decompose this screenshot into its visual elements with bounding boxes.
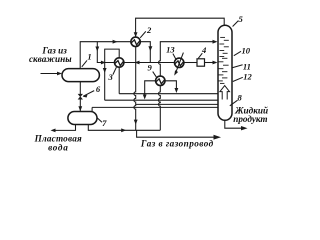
arrow on collector (121, 128, 126, 132)
wire: HX3 bottom to line A (118, 67, 120, 94)
wire: vessel 1 bottom drop to valve 6 (79, 82, 81, 94)
wire: valve 6 to vessel 7 with arrow (78, 99, 82, 111)
line C (136, 103, 218, 105)
heater block arrow 8 inside column bottom (220, 86, 230, 100)
text: Газ из скважины (29, 46, 72, 64)
arrow down on loop leg (103, 68, 107, 73)
line D (92, 106, 218, 108)
svg-text:3: 3 (107, 72, 113, 82)
svg-text:13: 13 (166, 45, 175, 55)
wire: column overhead line to HX2 top (136, 18, 225, 36)
label 12 with leader (233, 72, 253, 82)
label 6 with leader arrow (83, 84, 101, 97)
svg-text:10: 10 (242, 46, 251, 56)
svg-text:12: 12 (243, 72, 252, 82)
svg-text:4: 4 (201, 45, 207, 55)
wire: line F2 from HX3 right through valve 13 to box 4 (124, 62, 175, 64)
wire: HX9 top riser to column feed 1 with arrow (159, 40, 218, 76)
svg-text:6: 6 (96, 84, 101, 94)
svg-text:Газ в газопровод: Газ в газопровод (140, 138, 214, 148)
label 4 with leader (198, 45, 207, 58)
label 1 with leader (82, 52, 92, 67)
svg-text:5: 5 (238, 14, 243, 24)
label 3 with leader (107, 67, 116, 82)
svg-text:11: 11 (243, 62, 251, 72)
wire: HX9 left outlet down to line B with arrow (143, 81, 156, 100)
wire: HX9 bottom drop with hops to line D then down to collector (159, 86, 161, 131)
text: Пластовая вода (34, 133, 82, 152)
label 9 with leader (147, 63, 156, 78)
vessel 1 (horizontal separator) (62, 69, 99, 82)
throttle 13 (circle with zigzag and regulation arrow) (174, 53, 184, 76)
svg-text:7: 7 (102, 118, 107, 128)
heat exchanger 9 (circle with zigzag) (156, 76, 165, 85)
heat exchanger 2 (circle with zigzag) (131, 37, 140, 46)
column 5 (fractionator shell) (218, 25, 232, 120)
label 2 with leader (140, 25, 152, 38)
wire: HX2 right outlet down to line F2 (140, 42, 150, 63)
arrow down on HX2 right drop (148, 46, 152, 51)
label 13 with leader (166, 45, 176, 60)
wire: branch down from HX2 line into HX3 feed (97, 42, 114, 63)
box 4 (filter/meter) (197, 59, 205, 66)
wire: HX9 right outlet down to line A with arrow (165, 81, 178, 93)
wire: vessel 1 top riser to HX2 line (80, 42, 131, 69)
column internal dashes (219, 37, 229, 83)
label 10 with leader (234, 46, 251, 56)
svg-text:8: 8 (237, 92, 242, 102)
svg-text:продукт: продукт (233, 114, 267, 124)
arrow down on branch (95, 47, 99, 52)
wire: HX3 top loop down to line B (105, 49, 120, 100)
arrow into HX3 left (101, 61, 106, 65)
svg-text:9: 9 (147, 63, 152, 73)
text: Жидкий продукт (233, 105, 268, 123)
arrow pointing left into HX3 right side (135, 61, 140, 65)
wire: vessel 7 gas outlet up to line D (91, 107, 93, 111)
wire: column bottom liquid outlet with arrow (225, 120, 248, 130)
svg-text:2: 2 (146, 25, 152, 35)
wire: box 4 to column feed 2 with arrow (205, 61, 218, 65)
arrow into HX2 top (134, 32, 138, 37)
wire: inlet arrow into separator 1 (41, 72, 63, 76)
wire: between valve 13 and box 4 (184, 62, 197, 64)
wire: vessel 7 bottom-right outlet to collector line (88, 125, 160, 131)
wire: vessel 7 water outlet to the left (51, 125, 76, 133)
vessel 7 (water separator) (68, 112, 97, 125)
wire: HX2 bottom drop with hops, flow arrow (134, 47, 136, 131)
line A (hot stream to column) (119, 93, 218, 95)
label 7 with leader (97, 118, 107, 128)
svg-text:1: 1 (87, 52, 91, 62)
arrow on HX2 feed line (113, 40, 118, 44)
svg-text:скважины: скважины (29, 54, 72, 64)
valve 6 (hourglass on vertical pipe) (78, 94, 82, 99)
heat exchanger 3 (circle with zigzag) (115, 58, 124, 67)
svg-text:вода: вода (48, 143, 68, 153)
label 11 with leader (232, 62, 251, 72)
label 5 with leader (233, 14, 244, 26)
wire: pipeline jog and gas pipeline with big arrow (137, 130, 221, 139)
label 8 with leader (230, 92, 243, 106)
line B (105, 99, 218, 101)
